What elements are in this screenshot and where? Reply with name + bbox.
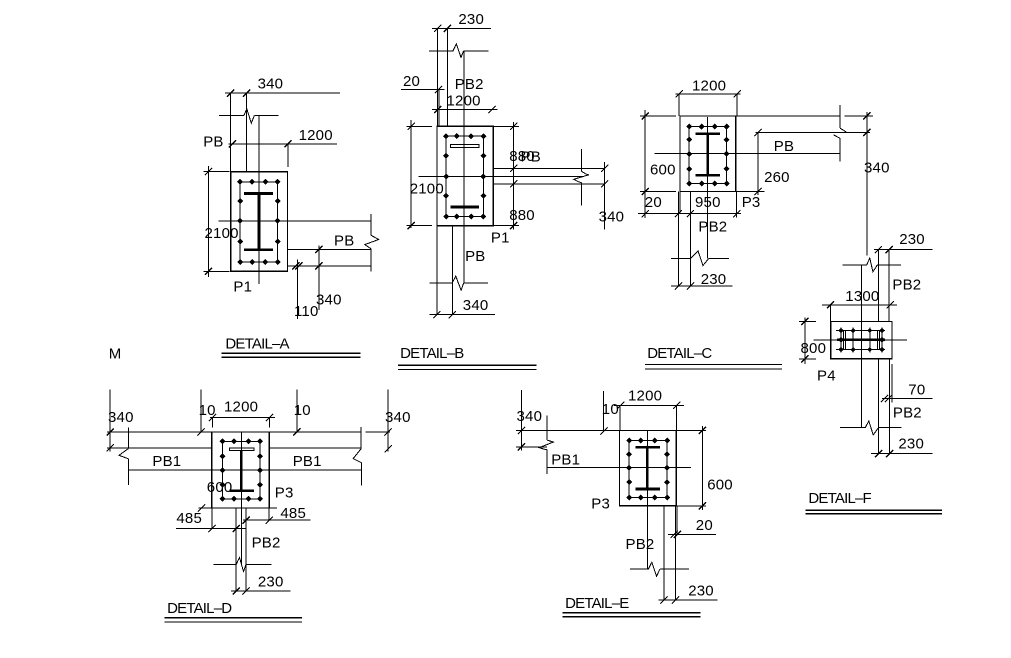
svg-text:230: 230 (899, 231, 925, 248)
svg-text:340: 340 (316, 291, 342, 308)
svg-text:P4: P4 (817, 367, 836, 384)
svg-text:340: 340 (463, 297, 489, 314)
svg-text:1200: 1200 (447, 93, 481, 110)
svg-text:1200: 1200 (299, 127, 333, 144)
svg-text:PB: PB (774, 138, 794, 155)
svg-text:PB: PB (465, 248, 485, 265)
svg-text:485: 485 (280, 505, 306, 522)
svg-text:230: 230 (458, 11, 484, 28)
svg-text:340: 340 (517, 408, 543, 425)
svg-text:1300: 1300 (845, 288, 879, 305)
svg-text:PB2: PB2 (455, 76, 484, 93)
svg-text:230: 230 (701, 271, 727, 288)
svg-text:600: 600 (707, 476, 733, 493)
svg-text:1200: 1200 (224, 399, 258, 416)
svg-text:PB: PB (203, 133, 223, 150)
svg-text:340: 340 (599, 209, 625, 226)
svg-text:800: 800 (801, 340, 827, 357)
svg-text:PB2: PB2 (892, 277, 921, 294)
svg-text:P3: P3 (275, 484, 294, 501)
svg-text:2100: 2100 (410, 181, 444, 198)
svg-text:DETAIL–F: DETAIL–F (808, 490, 871, 507)
svg-text:340: 340 (864, 160, 890, 177)
svg-text:DETAIL–A: DETAIL–A (225, 335, 289, 352)
svg-text:950: 950 (695, 194, 721, 211)
svg-text:230: 230 (898, 435, 924, 452)
svg-text:485: 485 (176, 510, 202, 527)
svg-text:340: 340 (258, 75, 284, 92)
svg-text:20: 20 (645, 194, 662, 211)
svg-text:110: 110 (294, 303, 319, 320)
svg-text:PB1: PB1 (293, 453, 322, 470)
svg-text:20: 20 (403, 73, 420, 90)
svg-text:1200: 1200 (628, 388, 662, 405)
svg-text:PB: PB (334, 232, 354, 249)
svg-text:PB1: PB1 (551, 451, 580, 468)
svg-text:PB2: PB2 (893, 404, 922, 421)
svg-text:PB2: PB2 (698, 218, 727, 235)
svg-text:340: 340 (108, 409, 134, 426)
svg-text:M: M (109, 345, 122, 362)
svg-text:600: 600 (650, 161, 676, 178)
svg-text:230: 230 (688, 582, 714, 599)
svg-text:70: 70 (908, 381, 925, 398)
svg-text:DETAIL–E: DETAIL–E (565, 595, 629, 612)
svg-text:10: 10 (602, 401, 619, 418)
svg-text:PB: PB (521, 149, 541, 166)
svg-text:880: 880 (509, 207, 535, 224)
svg-text:20: 20 (696, 517, 713, 534)
svg-text:P3: P3 (742, 194, 761, 211)
svg-text:230: 230 (258, 573, 284, 590)
svg-text:10: 10 (294, 402, 311, 419)
svg-text:P3: P3 (591, 496, 610, 513)
svg-text:260: 260 (764, 169, 790, 186)
svg-text:P1: P1 (491, 229, 510, 246)
svg-text:340: 340 (385, 409, 411, 426)
svg-text:DETAIL–B: DETAIL–B (400, 345, 464, 362)
svg-text:1200: 1200 (692, 78, 726, 95)
svg-text:P1: P1 (233, 279, 252, 296)
svg-text:DETAIL–C: DETAIL–C (647, 345, 712, 362)
svg-text:PB2: PB2 (252, 535, 281, 552)
svg-text:PB2: PB2 (626, 536, 655, 553)
svg-text:DETAIL–D: DETAIL–D (167, 600, 232, 617)
svg-text:2100: 2100 (205, 225, 239, 242)
svg-text:600: 600 (207, 479, 233, 496)
svg-text:PB1: PB1 (152, 453, 181, 470)
